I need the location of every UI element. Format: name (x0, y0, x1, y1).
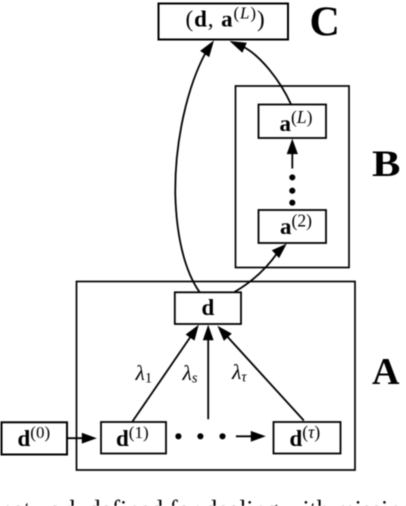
arrow dots -> d^(tau) (236, 431, 266, 442)
node C box (d, a^(L)) (159, 4, 289, 40)
svg-text:λs: λs (182, 361, 198, 387)
node a^(L) box (259, 105, 327, 139)
svg-text:C: C (310, 0, 340, 46)
arrow d^(tau) -> d (lambda_tau) (217, 326, 303, 421)
curved arrow d -> a^(2) (235, 244, 287, 292)
curved arrow d -> C (175, 40, 214, 292)
node d^(1) box (101, 422, 166, 454)
svg-text:network defined for dealing wi: network defined for dealing with missing… (0, 497, 406, 506)
node a^(2) box (259, 210, 327, 243)
svg-text:B: B (372, 142, 400, 184)
arrow a^(2) .. a^(L) (vertical) (287, 139, 298, 169)
svg-text:λτ: λτ (231, 360, 247, 386)
curved arrow a^(L) -> C (230, 41, 292, 104)
node d^(0) box (2, 422, 68, 454)
node d box (175, 292, 241, 324)
group A box (77, 282, 356, 471)
arrow d^(0) -> d^(1) (67, 433, 97, 444)
node d^(tau) box (274, 422, 341, 454)
group B box (236, 86, 350, 268)
svg-text:A: A (372, 351, 400, 393)
arrow d^(1) -> d (lambda_1) (133, 325, 199, 422)
horizontal ellipsis dots (175, 433, 225, 439)
svg-text:λ1: λ1 (135, 361, 153, 387)
svg-text:d: d (202, 295, 215, 320)
vertical ellipsis dots in B (289, 174, 295, 205)
arrow up middle (lambda_s) (203, 325, 214, 420)
